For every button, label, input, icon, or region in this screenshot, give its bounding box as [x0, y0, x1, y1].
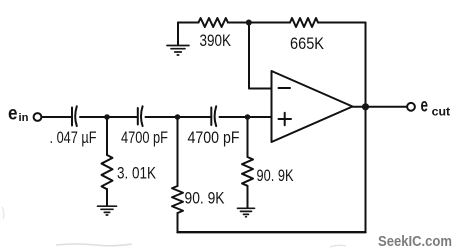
- ground under 3.01K: [98, 206, 117, 215]
- svg-text:in: in: [19, 112, 29, 124]
- svg-text:e: e: [8, 103, 18, 124]
- svg-text:90. 9K: 90. 9K: [185, 190, 225, 208]
- node C junction: [245, 114, 251, 120]
- ground under 90.9K right: [238, 208, 255, 217]
- wire node B to C3: [178, 116, 212, 118]
- terminal e_out circle: [407, 103, 415, 111]
- wire right vertical (output/feedback rail): [365, 23, 367, 233]
- resistor 3.01K: [102, 155, 113, 189]
- capacitor C1 .047uF plates: [71, 108, 73, 126]
- wire node A to C2: [107, 116, 138, 118]
- node output junction: [362, 103, 369, 110]
- capacitor C2 4700pF plates: [137, 108, 139, 125]
- wire inverting input from top node: [249, 23, 272, 89]
- wire bottom feedback rail: [178, 231, 366, 233]
- wire 90.9K left to bottom rail: [177, 213, 179, 232]
- node junction top (390K/665K/inverting): [246, 20, 252, 26]
- wire op-amp output: [353, 106, 407, 108]
- wire ground stub top-left: [177, 23, 179, 46]
- svg-text:4700 pF: 4700 pF: [188, 129, 240, 147]
- node B junction: [175, 114, 181, 120]
- ground top-left: [167, 46, 189, 56]
- op-amp U1 triangle: [272, 71, 353, 142]
- svg-text:4700 pF: 4700 pF: [121, 129, 168, 147]
- wire node B down: [177, 117, 179, 186]
- wire 90.9K right to ground: [247, 186, 249, 208]
- wire C3 to node C and + input: [220, 116, 272, 118]
- node A junction: [104, 114, 110, 120]
- wire node C down: [247, 117, 249, 157]
- resistor 665K: [290, 18, 318, 27]
- wire C2 to node B: [146, 116, 178, 118]
- wire top rail: [178, 22, 366, 24]
- svg-text:390K: 390K: [200, 32, 232, 50]
- wire node A down: [106, 117, 108, 155]
- svg-text:3. 01K: 3. 01K: [117, 165, 156, 183]
- capacitor C3 4700pF plates: [210, 108, 212, 126]
- wire 3.01K to ground: [106, 189, 108, 206]
- resistor 90.9K right: [242, 157, 253, 186]
- wire input line e_in to C1: [43, 116, 73, 118]
- op-amp plus symbol: [279, 113, 292, 126]
- svg-text:. 047 µF: . 047 µF: [50, 129, 97, 147]
- faint scan noise: [56, 244, 132, 246]
- svg-text:e: e: [421, 96, 429, 117]
- op-amp minus symbol: [279, 87, 291, 89]
- svg-text:cut: cut: [432, 107, 451, 119]
- terminal e_in circle: [34, 113, 42, 121]
- resistor 390K: [199, 18, 228, 27]
- resistor 90.9K left: [172, 186, 183, 213]
- svg-text:90. 9K: 90. 9K: [257, 167, 294, 185]
- svg-text:SeekIC.com: SeekIC.com: [378, 234, 452, 249]
- svg-text:665K: 665K: [290, 35, 324, 53]
- wire C1 to node A: [80, 116, 107, 118]
